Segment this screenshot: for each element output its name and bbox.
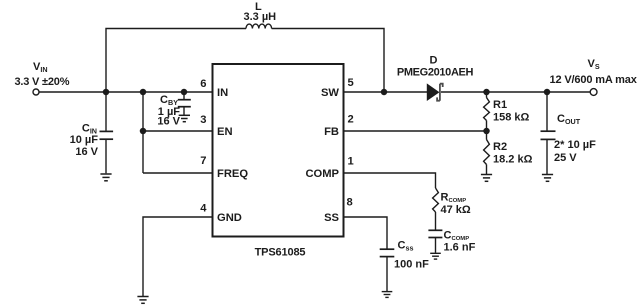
ground COUT xyxy=(542,175,553,182)
svg-text:100 nF: 100 nF xyxy=(394,259,429,271)
svg-text:3.3 µH: 3.3 µH xyxy=(244,11,277,23)
svg-text:D: D xyxy=(430,55,438,67)
ground CCOMP xyxy=(430,253,441,259)
ground CSS xyxy=(382,292,393,298)
wire COMP pin xyxy=(344,173,436,188)
node CBY junction xyxy=(181,89,188,96)
node VS output terminal xyxy=(590,89,597,96)
capacitor CCOMP xyxy=(428,212,475,254)
inductor L xyxy=(244,1,277,29)
svg-text:25 V: 25 V xyxy=(554,152,577,164)
wire input rail to IC IN pin xyxy=(39,91,212,93)
capacitor CBY xyxy=(157,92,190,128)
svg-text:PMEG2010AEH: PMEG2010AEH xyxy=(397,67,474,79)
ground CBY xyxy=(179,115,190,121)
op-amp/IC U1 TPS61085 xyxy=(213,64,344,258)
svg-text:TPS61085: TPS61085 xyxy=(255,246,306,258)
svg-text:1: 1 xyxy=(348,156,354,168)
ground R2 xyxy=(481,175,492,182)
svg-text:2: 2 xyxy=(348,114,354,126)
svg-text:3.3 V ±20%: 3.3 V ±20% xyxy=(15,76,70,88)
svg-text:16 V: 16 V xyxy=(157,116,180,128)
wire EN pin xyxy=(143,130,213,132)
wire top rail to SW node xyxy=(272,29,384,93)
diode D PMEG2010AEH xyxy=(397,55,474,101)
svg-text:GND: GND xyxy=(217,212,242,224)
resistor RCOMP xyxy=(433,188,471,216)
node FB junction xyxy=(483,128,490,135)
svg-text:8: 8 xyxy=(347,197,353,209)
node EN branch junction xyxy=(140,89,147,96)
svg-text:47 kΩ: 47 kΩ xyxy=(441,204,471,216)
svg-text:2* 10 µF: 2* 10 µF xyxy=(554,139,596,151)
wire up-left to top rail xyxy=(106,29,246,93)
ground GND pin xyxy=(137,297,148,304)
svg-text:18.2 kΩ: 18.2 kΩ xyxy=(493,154,533,166)
svg-text:R1: R1 xyxy=(493,99,507,111)
svg-text:EN: EN xyxy=(217,126,233,138)
node VIN input terminal xyxy=(33,89,39,95)
node input junction A xyxy=(103,89,110,96)
svg-text:6: 6 xyxy=(200,78,206,90)
wire diode to output xyxy=(441,91,590,93)
resistor R2 xyxy=(484,131,533,174)
wire EN/FREQ branch vertical xyxy=(142,92,144,173)
capacitor COUT xyxy=(541,92,597,174)
svg-text:158 kΩ: 158 kΩ xyxy=(493,112,530,124)
ground CIN xyxy=(100,174,111,181)
resistor R1 xyxy=(484,92,530,131)
svg-text:16 V: 16 V xyxy=(75,146,98,158)
node R1 junction xyxy=(483,89,490,96)
svg-text:SW: SW xyxy=(321,87,339,99)
wire SW pin to diode xyxy=(344,91,428,93)
svg-text:4: 4 xyxy=(200,203,207,215)
svg-text:1.6 nF: 1.6 nF xyxy=(444,242,476,254)
node COUT junction xyxy=(544,89,551,96)
capacitor CIN xyxy=(70,92,113,173)
svg-text:COMP: COMP xyxy=(305,168,339,180)
svg-text:3: 3 xyxy=(200,114,206,126)
capacitor CSS xyxy=(380,240,429,292)
svg-text:IN: IN xyxy=(217,87,228,99)
svg-text:7: 7 xyxy=(200,155,206,167)
node SW junction xyxy=(381,89,388,96)
wire GND pin to ground xyxy=(143,217,213,296)
node EN junction xyxy=(140,128,147,135)
wire FB pin xyxy=(344,130,487,132)
svg-text:10 µF: 10 µF xyxy=(70,134,99,146)
svg-text:FB: FB xyxy=(324,126,339,138)
svg-text:SS: SS xyxy=(324,212,339,224)
svg-text:R2: R2 xyxy=(493,141,507,153)
wire SS pin xyxy=(344,217,388,249)
svg-text:5: 5 xyxy=(348,77,354,89)
wire FREQ pin xyxy=(143,172,213,174)
svg-text:FREQ: FREQ xyxy=(217,168,248,180)
svg-text:12 V/600 mA max: 12 V/600 mA max xyxy=(550,74,638,86)
